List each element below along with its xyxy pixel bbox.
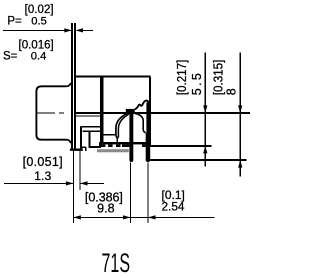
svg-text:[0.315]: [0.315] xyxy=(211,60,225,96)
svg-text:2.54: 2.54 xyxy=(162,199,185,213)
svg-text:[0.217]: [0.217] xyxy=(175,60,189,96)
svg-text:[0.051]: [0.051] xyxy=(23,155,63,169)
svg-text:0.5: 0.5 xyxy=(31,15,47,27)
svg-text:0.4: 0.4 xyxy=(31,50,47,62)
svg-text:8: 8 xyxy=(224,88,238,95)
svg-text:1.3: 1.3 xyxy=(34,169,51,183)
svg-text:5.5: 5.5 xyxy=(190,73,204,95)
svg-text:[0.02]: [0.02] xyxy=(25,4,54,16)
svg-text:S=: S= xyxy=(3,50,18,62)
svg-text:P=: P= xyxy=(7,15,22,27)
svg-text:9.8: 9.8 xyxy=(97,201,115,215)
svg-text:71S: 71S xyxy=(102,248,131,278)
